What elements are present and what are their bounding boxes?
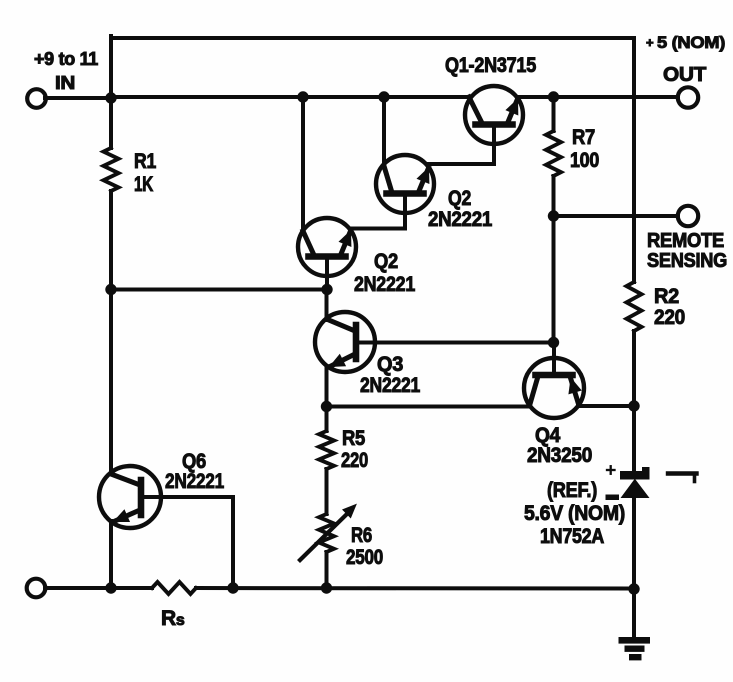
transistor Q6 circle [99, 466, 161, 528]
svg-text:R2: R2 [654, 285, 679, 308]
transistor Q2 middle circle [298, 218, 356, 276]
label 1N752A [540, 525, 604, 548]
svg-text:R6: R6 [351, 524, 372, 547]
node junction rail / Q2 collector column B [379, 92, 389, 102]
node junction rail / R7 top [548, 92, 558, 102]
wire Q1 base lead down [492, 127, 496, 164]
svg-text:220: 220 [654, 306, 685, 329]
wire right vertical top segment (top rail to R2) [632, 38, 636, 282]
wire rail Q1 emitter to OUT terminal [518, 95, 678, 99]
transistor Q4 emitter arrow (PNP, points toward bar) [569, 379, 581, 394]
svg-text:1N752A: 1N752A [540, 525, 604, 548]
svg-text:2N2221: 2N2221 [428, 208, 493, 231]
ground symbol [619, 589, 650, 660]
transistor Q1 base bar [476, 121, 513, 128]
wire Q3 emitter to R5 junction [325, 366, 329, 407]
terminal OUT [678, 87, 698, 107]
node junction R5 top / Q3 emitter / Q4 collector wire [321, 401, 331, 411]
label R6 value [346, 524, 383, 569]
label Q1-2N3715 [445, 54, 537, 77]
wire Q4 emitter to right vertical [578, 404, 634, 408]
svg-text:2N2221: 2N2221 [354, 273, 416, 296]
wire R7 top lead [552, 97, 556, 131]
wire Q4 collector to R5 junction [327, 405, 531, 409]
label Rs [161, 607, 185, 630]
diode zener cathode bar tick [643, 468, 650, 473]
transistor Q6 collector diagonal [111, 474, 140, 485]
node junction Q6 base / bottom rail [228, 583, 238, 593]
label R2 value [654, 285, 685, 329]
terminal IN [27, 89, 46, 108]
svg-text:Q3: Q3 [377, 353, 403, 376]
transistor Q3 emitter arrow [330, 355, 345, 367]
mark dash under REF [606, 495, 619, 500]
label Q4 [527, 424, 592, 467]
svg-text:Q1-2N3715: Q1-2N3715 [445, 54, 537, 77]
node junction left vertical / bottom rail [106, 583, 116, 593]
resistor Rs [152, 582, 196, 594]
wire Q6 base horizontal [141, 495, 233, 499]
label 5.6V (NOM) [524, 502, 625, 525]
wire bottom rail right of Rs [196, 586, 634, 591]
transistor Q1 collector diagonal [469, 97, 482, 122]
mark hook right of zener [668, 474, 697, 482]
diode zener CR1 cathode bar [621, 472, 650, 480]
transistor Q2 middle emitter diagonal [341, 231, 351, 254]
wire Q2 upper base lead down [403, 197, 407, 229]
svg-text:Rs: Rs [161, 607, 185, 630]
wire R6 bottom lead [325, 552, 329, 588]
svg-text:SENSING: SENSING [647, 250, 727, 272]
transistor Q1 circle [465, 86, 523, 144]
wire Q6 base drop to bottom rail [231, 497, 235, 588]
transistor Q4 collector diagonal [530, 378, 538, 404]
svg-text:(REF.): (REF.) [547, 479, 597, 502]
resistor R7 [546, 131, 561, 176]
transistor Q6 base bar [138, 480, 145, 515]
resistor R1 [104, 148, 119, 191]
svg-text:100: 100 [570, 149, 599, 172]
wire R5 to R6 [325, 469, 329, 514]
wire top rail from left vertical to right vertical [111, 36, 634, 40]
wire right vertical zener to bottom rail [632, 497, 636, 589]
transistor Q2 upper collector diagonal [384, 166, 392, 191]
svg-text:5 (NOM): 5 (NOM) [657, 33, 725, 52]
wire IN terminal link [45, 96, 111, 100]
node junction IN rail / left vertical [106, 93, 116, 103]
transistor Q6 emitter diagonal [115, 510, 140, 521]
resistor R2 [627, 282, 642, 331]
transistor Q2 middle base bar [309, 253, 346, 260]
svg-text:5.6V (NOM): 5.6V (NOM) [524, 502, 625, 525]
wire Q1 base to Q2 emitter [428, 162, 494, 166]
wire left vertical lower segment (Q6 emitter to bottom rail) [109, 521, 113, 588]
node junction left vertical / mid horizontal [106, 284, 116, 294]
transistor Q3 circle [315, 312, 375, 372]
resistor R5 [319, 431, 334, 469]
wire Q4 base lead [552, 343, 556, 376]
label R7 value [570, 126, 599, 172]
wire Q2 middle collector drop [301, 97, 305, 232]
svg-text:OUT: OUT [663, 64, 706, 86]
transistor Q2 upper emitter arrow [417, 168, 429, 183]
label IN [55, 73, 75, 93]
svg-text:220: 220 [341, 449, 368, 472]
wire R7 bottom to REMOTE junction [552, 176, 556, 216]
label (REF.) [547, 479, 597, 502]
diode zener anode triangle [622, 480, 649, 498]
label zener plus sign [607, 466, 615, 474]
terminal REMOTE SENSING [678, 206, 698, 226]
label OUT [663, 64, 706, 86]
transistor Q2 upper emitter diagonal [419, 168, 429, 191]
label Q2 middle [354, 250, 416, 296]
svg-text:2N2221: 2N2221 [165, 470, 225, 493]
label R1 value [134, 150, 157, 196]
wire mid horizontal from left vertical to Q2 middle base [111, 288, 327, 292]
transistor Q2 middle emitter arrow [339, 231, 351, 246]
svg-text:1K: 1K [134, 173, 153, 196]
transistor Q3 emitter diagonal [331, 354, 355, 366]
transistor Q4 base bar [536, 372, 573, 379]
svg-text:2N3250: 2N3250 [527, 444, 592, 467]
svg-text:2500: 2500 [346, 546, 383, 569]
wire left vertical middle segment (R1 to Q6) [109, 191, 113, 474]
transistor Q4 circle [524, 358, 584, 418]
wire Q3 collector drop [325, 290, 329, 321]
resistor R6 (variable) [319, 514, 334, 552]
label Q2 upper [428, 187, 493, 231]
node junction Q3 base / Q4 base / R7 column [548, 337, 558, 347]
transistor Q1 emitter diagonal [508, 99, 518, 122]
svg-text:IN: IN [55, 73, 75, 93]
transistor Q2 upper base bar [387, 190, 424, 197]
label Q3 [360, 353, 421, 397]
transistor Q6 emitter arrow [114, 510, 129, 521]
transistor Q4 emitter diagonal [571, 378, 579, 404]
svg-text:R5: R5 [342, 427, 366, 450]
wire Q2 middle base lead down [325, 260, 329, 289]
transistor Q2 middle collector diagonal [303, 231, 314, 254]
label +9 to 11 [34, 49, 98, 69]
wire REMOTE sensing line [554, 214, 679, 218]
label Q6 [165, 450, 225, 493]
wire R5 top lead [325, 407, 329, 432]
wire bottom rail left of Rs [45, 586, 152, 590]
wire R6 arrow shaft [300, 512, 349, 560]
svg-text:Q2: Q2 [448, 187, 471, 210]
arrow R6 wiper arrowhead [343, 505, 356, 518]
node junction Q2 middle base / Q3 collector [322, 284, 332, 294]
svg-text:+9 to 11: +9 to 11 [34, 49, 98, 69]
node junction right vertical / Q4 emitter wire [629, 401, 639, 411]
label R5 value [341, 427, 368, 472]
wire left vertical upper segment (top rail to R1) [109, 36, 113, 148]
wire right vertical R2 to zener [632, 331, 636, 471]
svg-text:Q2: Q2 [374, 250, 398, 273]
wire IN rail left of Q1 [111, 95, 470, 99]
transistor Q1 emitter arrow [506, 100, 518, 115]
node junction R6 / bottom rail [321, 583, 331, 593]
wire Q3 base to R7/Q4 column [356, 341, 554, 345]
svg-text:+: + [646, 35, 654, 50]
node junction R7 column / REMOTE wire [548, 211, 558, 221]
wire R7 column down to Q3/Q4 junction [552, 216, 556, 343]
label REMOTE SENSING [647, 230, 727, 272]
svg-text:2N2221: 2N2221 [360, 374, 421, 397]
svg-text:REMOTE: REMOTE [647, 230, 724, 252]
terminal bottom left [27, 579, 46, 598]
node junction right vertical / bottom rail (ground node) [629, 584, 639, 594]
wire Q2 upper collector drop [382, 97, 386, 167]
transistor Q2 upper circle [376, 155, 434, 213]
wire Q2 upper base to Q2 middle emitter [351, 227, 405, 231]
transistor Q3 base bar [353, 325, 360, 359]
svg-text:R1: R1 [134, 150, 157, 173]
svg-text:R7: R7 [572, 126, 595, 149]
node junction rail / Q2 collector column A [298, 92, 308, 102]
label +5 (NOM) [646, 33, 725, 52]
transistor Q3 collector diagonal [327, 319, 356, 331]
